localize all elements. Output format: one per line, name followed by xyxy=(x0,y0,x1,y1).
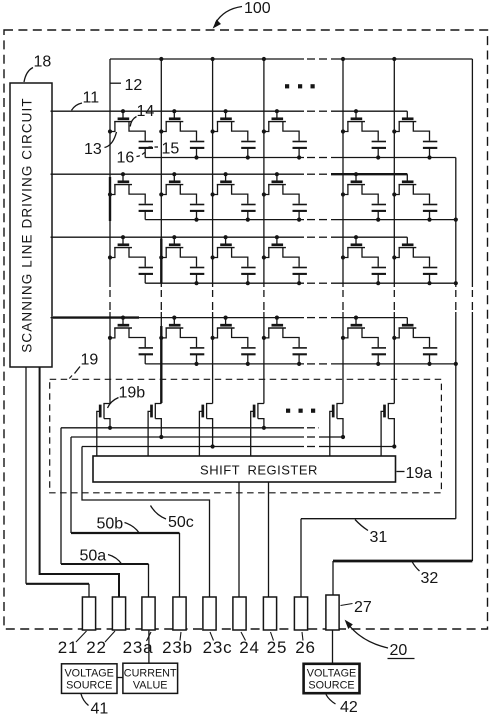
selection transistor 19b column 3 (data line to output bus) xyxy=(199,404,214,457)
data line 12 column 4 (vertical) xyxy=(263,59,265,404)
current value box (measuring unit) xyxy=(123,663,178,693)
svg-text:CURRENT: CURRENT xyxy=(124,667,177,679)
bold segment on scanning line row 4 xyxy=(53,316,139,318)
pixel cell row 3 col 1: transistor 14 and capacitor 15 xyxy=(108,235,153,283)
capacitor common bus row 3 (to line 31 collector) xyxy=(145,281,458,285)
svg-text:32: 32 xyxy=(421,570,439,587)
label 42 with leader to voltage source box 42 xyxy=(326,695,358,715)
pixel cell row 1 col 4: transistor 14 and capacitor 15 xyxy=(262,109,307,159)
svg-text:50b: 50b xyxy=(97,516,124,533)
scanning line 11 row 3 (from circuit 18) xyxy=(51,236,408,238)
label 13 with leader to transistor source lead (row1 col1) xyxy=(84,132,117,158)
label 19b with leader to transistor 19b col 1 xyxy=(108,385,146,409)
label 27 with leader tick to terminal 27 xyxy=(341,599,372,616)
bold segment on data line column 2 (row 3 span) xyxy=(160,239,162,284)
svg-text:20: 20 xyxy=(390,642,408,659)
label 23a with leader to terminal 23a xyxy=(123,632,154,657)
svg-text:24: 24 xyxy=(239,638,260,657)
output bus 50a (y=427.8) from transistors col1,col4 xyxy=(61,427,319,429)
label 23c with leader to terminal 23c xyxy=(203,632,233,657)
svg-text:14: 14 xyxy=(137,103,155,120)
svg-text:18: 18 xyxy=(34,54,52,71)
label 14 with leader to transistor 14 gate (row1 col1) xyxy=(130,103,154,127)
pixel cell row 2 col 1: transistor 14 and capacitor 15 xyxy=(108,172,153,220)
scanning line 11 row 4 (from circuit 18) xyxy=(51,317,408,319)
transistor row ellipsis dots (columns continue) xyxy=(286,409,315,413)
pixel cell row 2 col 3: transistor 14 and capacitor 15 xyxy=(211,172,256,222)
terminal pads 21,22,23a,23b,23c,24,25,26,27 xyxy=(82,595,339,630)
label 24 with leader to terminal 24 xyxy=(239,632,260,657)
svg-text:50c: 50c xyxy=(168,514,194,531)
top horizontal supply bus (joins data/power lines, feeds line 32) xyxy=(110,58,472,60)
svg-text:100: 100 xyxy=(244,0,271,17)
control wire from circuit 18 to terminal 21 xyxy=(26,367,89,597)
svg-text:VOLTAGE: VOLTAGE xyxy=(307,667,356,679)
svg-text:26: 26 xyxy=(295,638,316,657)
data line 12 column 5 (vertical) xyxy=(342,59,344,404)
output wire 50b routing to terminal 23b xyxy=(71,437,180,597)
label 18 with leader to block 18 xyxy=(24,54,51,83)
label 19 with leader to dashed box 19 xyxy=(68,352,98,381)
svg-text:23c: 23c xyxy=(203,638,233,657)
selection transistor 19b column 5 (data line to output bus) xyxy=(330,404,345,457)
common line to terminal 26 (net 31): vertical collector and routing xyxy=(301,158,456,598)
svg-text:41: 41 xyxy=(91,701,109,715)
svg-text:12: 12 xyxy=(125,77,143,94)
pixel cell row 1 col 3: transistor 14 and capacitor 15 xyxy=(211,109,256,159)
label 22 with leader to terminal 22 xyxy=(86,631,115,657)
wire from terminal 27 to voltage source box 42 xyxy=(332,630,334,664)
pixel cell row 4 col 4: transistor 14 and capacitor 15 xyxy=(262,316,307,367)
data line 12 column 1 (vertical) xyxy=(109,59,111,404)
svg-text:SOURCE: SOURCE xyxy=(308,679,354,691)
data line 12 column 6 (vertical) xyxy=(393,59,395,404)
label 12 with leader tick to data line column 1 xyxy=(110,77,142,94)
svg-text:19b: 19b xyxy=(119,385,146,402)
output wire 50c routing to terminal 23c xyxy=(82,447,210,598)
svg-text:16: 16 xyxy=(117,150,135,167)
pixel cell row 1 col 1: transistor 14 and capacitor 15 xyxy=(108,109,153,157)
svg-text:11: 11 xyxy=(83,90,100,107)
pixel cell row 2 col 5: transistor 14 and capacitor 15 xyxy=(341,172,386,222)
bold segment on data line column 2 (row 4 span) xyxy=(160,326,162,403)
svg-text:50a: 50a xyxy=(80,548,107,565)
svg-text:15: 15 xyxy=(162,141,180,158)
junction dots of vertical lines on top bus xyxy=(159,57,396,61)
label 16 with dashed leader to capacitor lower electrode (row1 col1) xyxy=(117,150,146,167)
wire between voltage source and current value boxes xyxy=(117,677,123,679)
label 41 with leader to voltage source box xyxy=(81,694,108,715)
label 11 with leader to scanning line row 1 xyxy=(72,90,100,111)
control wire from circuit 18 to terminal 22 xyxy=(40,367,119,597)
output wire 50a routing to terminal 23a xyxy=(61,428,149,597)
pixel cell row 2 col 4: transistor 14 and capacitor 15 xyxy=(262,172,307,222)
pixel cell row 1 col 2: transistor 14 and capacitor 15 xyxy=(159,109,204,159)
svg-text:27: 27 xyxy=(354,599,372,616)
scanning line 11 row 1 (from circuit 18) xyxy=(51,110,408,112)
svg-text:SCANNING LINE DRIVING CIRCUIT: SCANNING LINE DRIVING CIRCUIT xyxy=(20,97,35,352)
label 31 with leader to net 31 xyxy=(355,520,387,547)
data line 12 column 3 (vertical) xyxy=(212,59,214,404)
svg-text:VALUE: VALUE xyxy=(133,679,168,691)
pixel cell row 3 col 4: transistor 14 and capacitor 15 xyxy=(262,235,307,285)
selection transistor 19b column 6 (data line to output bus) xyxy=(381,404,396,457)
svg-text:13: 13 xyxy=(84,141,102,158)
power supply line 32: right vertical from top bus, routed to terminal 27 xyxy=(333,59,472,595)
output bus 50b (y=437) from transistors col2,col5 xyxy=(71,436,343,438)
label 23b with leader to terminal 23b xyxy=(162,632,193,657)
selection transistor 19b column 2 (data line to output bus) xyxy=(148,404,163,457)
bold segment on scanning line row 2 xyxy=(331,173,407,175)
svg-text:22: 22 xyxy=(86,638,107,657)
matrix column ellipsis dots (top) xyxy=(285,84,315,88)
selection transistor 19b column 1 (data line to output bus) xyxy=(97,404,112,457)
output bus 50c (y=446.5) from transistors col3,col6 xyxy=(82,446,394,448)
label 50a with leader to wire 50a xyxy=(80,548,123,565)
svg-text:SHIFT REGISTER: SHIFT REGISTER xyxy=(200,463,318,478)
label 15 with dashed leader to capacitor 15 (row1 col1) xyxy=(149,141,180,158)
label 21 with leader to terminal 21 xyxy=(58,631,87,657)
pixel cell row 1 col 5: transistor 14 and capacitor 15 xyxy=(341,109,386,159)
wire from terminal 23a to current value box xyxy=(148,630,150,663)
pixel cell row 2 col 6: transistor 14 and capacitor 15 xyxy=(392,174,437,222)
label 19a with leader tick to shift register box xyxy=(397,465,433,482)
label 32 with leader to line 32 xyxy=(412,562,438,588)
capacitor common bus row 2 (to line 31 collector) xyxy=(145,218,458,222)
selection transistor 19b column 4 (data line to output bus) xyxy=(251,404,266,457)
label 50b with leader to wire 50b xyxy=(97,516,140,533)
scanning line 11 row 2 (from circuit 18) xyxy=(51,173,408,175)
pixel cell row 3 col 3: transistor 14 and capacitor 15 xyxy=(211,235,256,285)
svg-text:23b: 23b xyxy=(162,638,193,657)
data line 12 column 2 (vertical) xyxy=(160,59,162,404)
pixel cell row 3 col 5: transistor 14 and capacitor 15 xyxy=(341,235,386,285)
shift register clock wire to terminal 24 xyxy=(238,482,240,597)
scanning line driving circuit block 18 xyxy=(10,83,52,367)
current setting circuit 19 (dashed box) xyxy=(50,379,442,493)
pixel cell row 4 col 3: transistor 14 and capacitor 15 xyxy=(211,316,256,367)
voltage source box 41 (left) xyxy=(62,664,118,694)
pixel cell row 1 col 6: transistor 14 and capacitor 15 xyxy=(392,111,437,159)
svg-text:19: 19 xyxy=(81,352,99,369)
pixel cell row 3 col 6: transistor 14 and capacitor 15 xyxy=(392,237,437,285)
label 20 (underlined) with arrow to terminal 27 xyxy=(345,620,415,659)
label 25 with leader to terminal 25 xyxy=(267,632,288,657)
pixel cell row 2 col 2: transistor 14 and capacitor 15 xyxy=(159,172,204,222)
svg-text:21: 21 xyxy=(58,638,79,657)
svg-text:SOURCE: SOURCE xyxy=(66,679,112,691)
svg-text:25: 25 xyxy=(267,638,288,657)
svg-text:VOLTAGE: VOLTAGE xyxy=(64,667,113,679)
voltage source box 42 (right) xyxy=(304,664,360,693)
bold segment on data line column 1 (row 2 span) xyxy=(109,177,111,221)
pixel cell row 4 col 1: transistor 14 and capacitor 15 xyxy=(108,316,153,364)
pixel cell row 4 col 5: transistor 14 and capacitor 15 xyxy=(341,316,386,367)
svg-text:31: 31 xyxy=(370,529,388,546)
capacitor common bus row 1 (to line 31 collector) xyxy=(145,157,456,159)
svg-text:19a: 19a xyxy=(406,465,433,482)
label 26 with leader to terminal 26 xyxy=(295,632,316,657)
svg-text:42: 42 xyxy=(340,699,358,715)
pixel cell row 3 col 2: transistor 14 and capacitor 15 xyxy=(159,235,204,285)
capacitor common bus row 4 (to line 31 collector) xyxy=(145,362,458,366)
label 50c with leader to wire 50c xyxy=(151,506,194,532)
label 100 with leader arrow to panel outline xyxy=(213,0,271,29)
shift register clock wire to terminal 25 xyxy=(268,482,270,597)
pixel cell row 4 col 6: transistor 14 and capacitor 15 xyxy=(392,318,437,366)
pixel cell row 4 col 2: transistor 14 and capacitor 15 xyxy=(159,316,204,367)
shift register 19a box xyxy=(93,456,396,482)
